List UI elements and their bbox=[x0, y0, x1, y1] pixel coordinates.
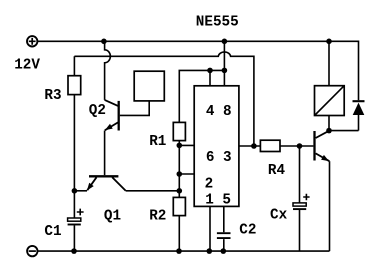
svg-text:NE555: NE555 bbox=[196, 15, 239, 31]
svg-text:C1: C1 bbox=[44, 224, 61, 240]
svg-text:1 5: 1 5 bbox=[205, 193, 231, 209]
svg-text:4 8: 4 8 bbox=[206, 104, 232, 120]
svg-text:R4: R4 bbox=[268, 163, 286, 179]
svg-text:6 3: 6 3 bbox=[206, 150, 232, 166]
svg-text:Q2: Q2 bbox=[89, 103, 106, 119]
svg-text:Cx: Cx bbox=[270, 208, 288, 224]
svg-text:C2: C2 bbox=[239, 223, 256, 239]
svg-text:R1: R1 bbox=[149, 134, 166, 150]
svg-text:12V: 12V bbox=[14, 58, 40, 74]
svg-text:R3: R3 bbox=[44, 88, 61, 104]
svg-text:R2: R2 bbox=[149, 209, 166, 225]
svg-text:2: 2 bbox=[205, 176, 214, 192]
svg-text:Q1: Q1 bbox=[104, 208, 121, 224]
